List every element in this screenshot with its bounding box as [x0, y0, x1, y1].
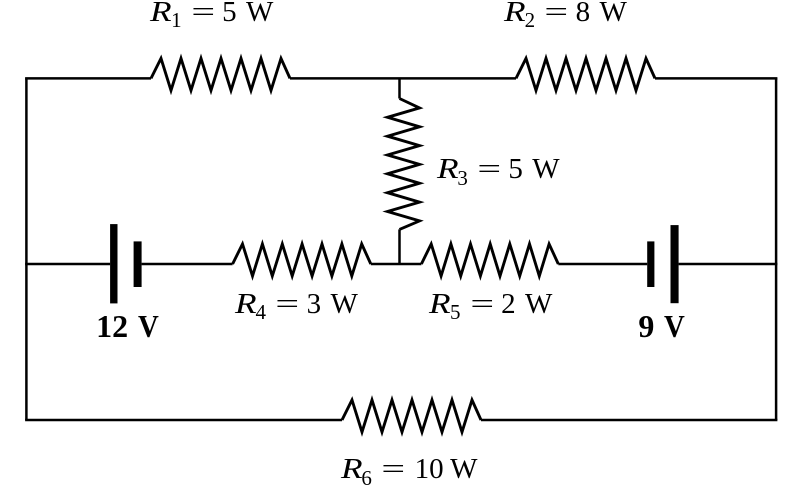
label R4 value	[235, 290, 358, 324]
battery B2 9V short plate	[647, 241, 654, 287]
wire R3 bottom stub	[398, 229, 401, 264]
wire bottom-left segment	[25, 419, 342, 422]
resistor R3	[388, 99, 420, 230]
label R3 value	[437, 155, 560, 189]
label R2 value	[504, 0, 627, 31]
resistor R2	[516, 58, 655, 90]
battery B1 12V short plate	[134, 241, 142, 287]
battery B1 12V long plate	[110, 224, 117, 303]
wire right vertical	[775, 78, 778, 420]
wire bottom-right segment	[481, 419, 777, 422]
wire left vertical	[25, 78, 28, 420]
wire top-right segment	[655, 77, 777, 80]
label R5 value	[429, 290, 552, 324]
resistor R4	[233, 244, 371, 276]
wire top-left segment	[25, 77, 151, 80]
wire R3 top stub	[398, 78, 401, 98]
label battery B1 voltage 12 V	[96, 310, 161, 342]
label R6 value	[341, 455, 478, 489]
wire top-middle segment	[290, 77, 516, 80]
label R1 value	[150, 0, 273, 31]
wire middle-right segment	[679, 263, 778, 266]
resistor R1	[151, 58, 290, 90]
wire battery B1 to R4	[142, 263, 233, 266]
wire R4 to R5 (node with R3)	[371, 263, 422, 266]
resistor R6	[342, 400, 481, 432]
wire middle-left segment	[25, 263, 110, 266]
wire R5 to battery B2	[558, 263, 647, 266]
battery B2 9V long plate	[671, 225, 679, 303]
label battery B2 voltage 9 V	[638, 310, 686, 342]
resistor R5	[421, 244, 558, 276]
